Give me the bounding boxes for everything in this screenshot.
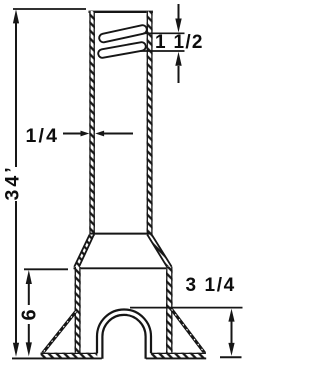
wall thickness right-pointing arrow — [63, 133, 82, 135]
3 1/4 dim top extension line — [130, 307, 243, 309]
left flare of base (sectioned) — [74, 235, 95, 267]
base right wall (sectioned) — [166, 267, 173, 354]
6 in dim line lower segment with down arrow — [28, 324, 30, 344]
pole left wall (sectioned) — [89, 11, 95, 236]
svg-text:1/4: 1/4 — [26, 125, 60, 147]
svg-text:1 1/2: 1 1/2 — [155, 32, 204, 53]
6 in dim line upper segment with up arrow — [28, 283, 30, 305]
base foot left (sectioned) — [41, 353, 98, 359]
3 1/4 dim bottom extension tick — [220, 356, 242, 358]
svg-text:3 1/4: 3 1/4 — [186, 275, 236, 296]
slot dim extension line lower — [141, 50, 185, 52]
right gusset slope — [172, 309, 205, 353]
slot 2 (lower hand-hole) — [98, 42, 147, 59]
ground/bottom line right — [146, 357, 206, 359]
svg-text:34’: 34’ — [2, 164, 24, 200]
34 ft dim line upper segment with up arrow — [15, 21, 17, 167]
pole socket joint line — [90, 233, 153, 235]
left gusset slope — [43, 312, 76, 354]
6 in dim top extension line — [24, 268, 68, 270]
arch inner arc — [102, 315, 145, 359]
pole top break line — [89, 11, 154, 13]
34 ft dim line lower segment with down arrow — [15, 201, 17, 344]
arch outer arc — [97, 310, 151, 354]
svg-text:6: 6 — [19, 309, 41, 320]
slot 1 (upper hand-hole) — [98, 24, 147, 43]
slot dim lower arrow — [178, 66, 180, 83]
wall thickness left-pointing arrow — [104, 133, 133, 135]
base shoulder line — [74, 267, 173, 269]
slot dim extension line upper — [143, 32, 185, 34]
ground/bottom line left — [12, 357, 102, 359]
base left wall (sectioned) — [75, 267, 81, 354]
pole right wall (sectioned) — [147, 11, 153, 236]
3 1/4 dim line with arrows both ends — [231, 320, 233, 344]
right flare of base (sectioned) — [147, 235, 173, 267]
base foot right (sectioned) — [151, 353, 206, 359]
slot dim upper arrow — [178, 4, 180, 19]
34 ft dim top extension line — [13, 8, 86, 10]
